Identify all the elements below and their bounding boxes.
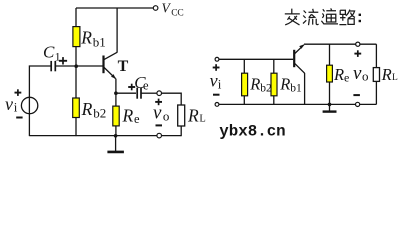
- wire: emitter output rail: [304, 43, 376, 45]
- polarity minus vo: [156, 124, 163, 126]
- wire: Re bottom: [115, 126, 117, 136]
- resistor Rb2 AC: [242, 73, 248, 96]
- ground: [107, 136, 124, 152]
- wire: base wire from C1 to transistor: [55, 65, 102, 67]
- label VCC: [162, 1, 184, 19]
- polarity minus vi AC: [213, 94, 220, 96]
- resistor Re AC: [327, 65, 333, 82]
- svg-text:ybx8.cn: ybx8.cn: [219, 123, 285, 141]
- label Re AC: [333, 65, 349, 85]
- wire: emitter to Ce: [116, 92, 136, 94]
- polarity plus vo AC: [354, 50, 361, 57]
- svg-text:v: v: [153, 103, 162, 124]
- svg-text:R: R: [249, 74, 260, 93]
- svg-text:CC: CC: [171, 9, 183, 19]
- label Re: [122, 105, 141, 126]
- resistor RL AC: [373, 68, 379, 82]
- svg-text:R: R: [187, 106, 199, 126]
- capacitor Ce: [137, 88, 141, 99]
- label C1: [43, 43, 61, 64]
- svg-text:v: v: [210, 71, 218, 91]
- wire: Rb2 AC bottom: [243, 96, 245, 105]
- svg-text:R: R: [122, 105, 134, 125]
- transistor T2 emitter stroke with arrow: [295, 44, 304, 53]
- svg-text:i: i: [14, 100, 18, 115]
- svg-text:i: i: [218, 77, 222, 92]
- svg-text:e: e: [143, 78, 149, 92]
- title colon: [359, 14, 361, 23]
- svg-text:L: L: [199, 113, 205, 124]
- wire: Ce to output terminal: [141, 92, 157, 94]
- label Rb1: [80, 27, 106, 49]
- svg-text:o: o: [163, 109, 170, 124]
- terminal vo top AC: [356, 42, 360, 46]
- transistor T collector stroke: [104, 52, 117, 59]
- svg-text:L: L: [392, 73, 398, 83]
- wire: vi bottom: [28, 114, 30, 136]
- polarity minus vo AC: [353, 94, 360, 96]
- label RL: [187, 106, 206, 126]
- svg-text:T: T: [118, 58, 129, 75]
- label vo: [153, 103, 169, 124]
- svg-text:C: C: [43, 43, 55, 62]
- polarity plus Ce: [128, 84, 135, 91]
- wire: AC bottom rail: [219, 103, 377, 105]
- wire: Rb2 bottom: [75, 118, 77, 137]
- label vi: [5, 94, 18, 115]
- svg-text:R: R: [279, 74, 290, 93]
- node: ground junction: [114, 134, 118, 138]
- terminal VCC: [153, 6, 158, 11]
- title: AC path (hand-drawn CJK): [285, 8, 355, 25]
- resistor Re: [113, 106, 119, 126]
- svg-text:R: R: [333, 65, 344, 84]
- terminal vo bottom AC: [356, 102, 360, 106]
- wire: RL bottom: [180, 126, 182, 136]
- terminal vi top (AC circuit): [215, 57, 219, 61]
- svg-text:v: v: [5, 94, 13, 114]
- svg-text:o: o: [362, 68, 369, 83]
- svg-text:b2: b2: [93, 105, 106, 120]
- svg-text:R: R: [81, 99, 93, 119]
- polarity plus C1: [59, 57, 67, 64]
- node: base divider junction: [74, 64, 78, 68]
- svg-text:b2: b2: [260, 82, 272, 94]
- transistor T2 collector stroke: [295, 63, 305, 73]
- label Ce: [134, 73, 149, 93]
- label Rb2 AC: [249, 74, 272, 94]
- wire: VCC top rail: [76, 7, 153, 9]
- terminal vo top: [157, 91, 162, 96]
- wire: bottom rail: [29, 135, 181, 137]
- terminal vo bottom: [157, 133, 162, 138]
- wire: Re AC bottom: [329, 82, 331, 104]
- transistor T2 base bar: [293, 50, 295, 67]
- transistor T emitter stroke with arrow: [104, 67, 116, 78]
- label vo AC: [353, 63, 369, 84]
- polarity plus vi AC: [213, 64, 220, 71]
- label Rb2: [81, 99, 107, 121]
- resistor Rb1: [73, 27, 80, 47]
- source vi: [21, 97, 37, 113]
- wire: Rb1 AC top: [273, 59, 275, 73]
- node: emitter output junction: [114, 91, 118, 95]
- wire: RL AC bottom: [375, 81, 377, 104]
- transistor T base bar: [102, 56, 104, 74]
- terminal vi bottom (AC circuit): [215, 103, 219, 107]
- node: Re ground junction: [328, 103, 332, 107]
- svg-text:v: v: [353, 63, 362, 84]
- wire: RL AC top: [375, 44, 377, 67]
- wire: Re AC top: [329, 44, 331, 65]
- svg-text:R: R: [80, 27, 92, 47]
- wire: output top to RL: [161, 93, 181, 105]
- wire: input left segment to C1: [29, 66, 51, 98]
- ground AC: [323, 104, 337, 111]
- svg-text:e: e: [344, 71, 349, 85]
- resistor RL: [178, 105, 185, 126]
- svg-text:b1: b1: [93, 35, 106, 50]
- polarity plus vi: [15, 89, 22, 96]
- label RL AC: [381, 65, 398, 84]
- resistor Rb2: [73, 98, 80, 118]
- wire: Rb1 AC bottom: [273, 96, 275, 105]
- resistor Rb1 AC: [271, 73, 277, 96]
- wire: Rb1 top: [75, 8, 77, 27]
- wire: Rb1 bottom to base node: [75, 47, 77, 66]
- label vi AC: [210, 71, 222, 92]
- wire: Rb2 top: [75, 66, 77, 98]
- svg-text:R: R: [381, 65, 392, 84]
- wire: emitter down: [115, 79, 117, 107]
- label Rb1 AC: [279, 74, 302, 94]
- polarity plus vo: [155, 99, 162, 106]
- svg-text:b1: b1: [290, 82, 302, 94]
- polarity minus vi: [16, 117, 22, 119]
- wire: Rb2 AC top: [243, 59, 245, 73]
- capacitor C1: [51, 61, 55, 71]
- wire: T2 collector down to bottom rail: [304, 73, 306, 104]
- wire: AC top rail to base: [219, 58, 293, 60]
- svg-text:e: e: [134, 112, 140, 126]
- wire: collector up to VCC rail: [116, 8, 118, 53]
